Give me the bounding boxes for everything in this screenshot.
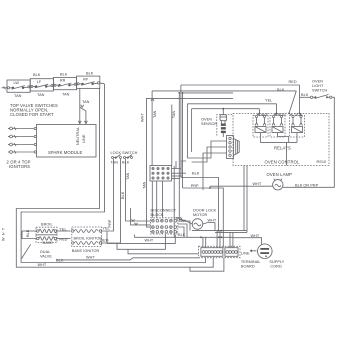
svg-text:DLB: DLB	[295, 113, 303, 117]
svg-text:CLOSED FOR START: CLOSED FOR START	[10, 112, 54, 117]
svg-text:TAN: TAN	[62, 93, 70, 97]
svg-text:BLK: BLK	[178, 233, 186, 237]
svg-text:TAN: TAN	[82, 100, 90, 104]
svg-text:WHT: WHT	[141, 113, 145, 122]
svg-text:DOOR LOCK: DOOR LOCK	[193, 209, 217, 213]
svg-text:YEL: YEL	[265, 99, 272, 103]
svg-text:YEL: YEL	[102, 227, 109, 231]
svg-text:WHT: WHT	[253, 182, 262, 186]
svg-text:WHT: WHT	[38, 263, 47, 267]
svg-text:BAKE: BAKE	[258, 113, 269, 117]
svg-text:TAN: TAN	[153, 110, 157, 118]
svg-text:BLK: BLK	[277, 88, 285, 92]
svg-text:BLOCK: BLOCK	[151, 213, 165, 217]
svg-text:BLK: BLK	[56, 259, 64, 263]
svg-text:DISCONNECT: DISCONNECT	[151, 209, 177, 213]
svg-text:TAN: TAN	[172, 111, 176, 119]
svg-text:OVEN: OVEN	[201, 118, 212, 122]
svg-text:BLK: BLK	[26, 229, 30, 237]
svg-text:BROIL: BROIL	[275, 113, 287, 117]
svg-text:RS10: RS10	[317, 160, 327, 164]
svg-text:WHT: WHT	[2, 226, 6, 241]
svg-text:WHT: WHT	[208, 219, 217, 223]
svg-text:BLK: BLK	[33, 73, 41, 77]
svg-text:BAKE IGNITOR: BAKE IGNITOR	[72, 249, 100, 253]
svg-text:LINE: LINE	[241, 252, 250, 256]
svg-text:BROIL IGNITOR: BROIL IGNITOR	[74, 237, 103, 241]
svg-text:MOTOR: MOTOR	[193, 213, 208, 217]
svg-text:WHT: WHT	[251, 234, 260, 238]
svg-text:RR: RR	[60, 79, 66, 83]
svg-text:NEUTRAL: NEUTRAL	[76, 127, 80, 145]
svg-text:BAKE: BAKE	[43, 241, 54, 245]
svg-text:IGNITORS: IGNITORS	[9, 164, 30, 169]
svg-text:SPARK MODULE: SPARK MODULE	[48, 150, 82, 155]
svg-text:PRP: PRP	[191, 184, 199, 188]
svg-text:SWITCH: SWITCH	[312, 89, 327, 93]
svg-text:OVEN CONTROL: OVEN CONTROL	[265, 159, 300, 164]
svg-text:RF: RF	[83, 77, 89, 81]
svg-text:BLK: BLK	[86, 71, 94, 75]
svg-text:RED: RED	[289, 80, 297, 84]
svg-text:SENSOR: SENSOR	[201, 122, 218, 126]
svg-text:CORD: CORD	[270, 264, 282, 268]
svg-text:TAN: TAN	[14, 94, 22, 98]
svg-text:BLK: BLK	[301, 93, 309, 97]
svg-text:TAN: TAN	[126, 172, 130, 180]
svg-text:WHT: WHT	[86, 256, 95, 260]
svg-text:BLK: BLK	[121, 191, 125, 199]
svg-text:OVEN: OVEN	[312, 80, 323, 84]
svg-text:TAN: TAN	[111, 161, 119, 165]
svg-text:VALVE: VALVE	[40, 255, 52, 259]
svg-text:BLK: BLK	[192, 172, 200, 176]
svg-text:RED: RED	[100, 239, 108, 243]
svg-text:WHT: WHT	[145, 238, 154, 242]
svg-text:BLK OR PRP: BLK OR PRP	[295, 183, 319, 187]
svg-text:LF: LF	[37, 80, 42, 84]
svg-text:DUAL: DUAL	[40, 250, 50, 254]
svg-text:LIGHT: LIGHT	[312, 84, 324, 88]
svg-text:BROIL: BROIL	[41, 223, 53, 227]
svg-text:TAN: TAN	[37, 93, 45, 97]
svg-text:TAN: TAN	[143, 181, 147, 189]
svg-text:BLK: BLK	[60, 72, 68, 76]
svg-text:RELAYS: RELAYS	[274, 146, 291, 151]
svg-text:OVEN LAMP: OVEN LAMP	[267, 172, 293, 177]
svg-text:LOCK SWITCH: LOCK SWITCH	[111, 151, 138, 155]
svg-text:BOARD: BOARD	[241, 264, 255, 268]
svg-text:LINE: LINE	[82, 134, 86, 143]
svg-text:LW: LW	[14, 81, 20, 85]
